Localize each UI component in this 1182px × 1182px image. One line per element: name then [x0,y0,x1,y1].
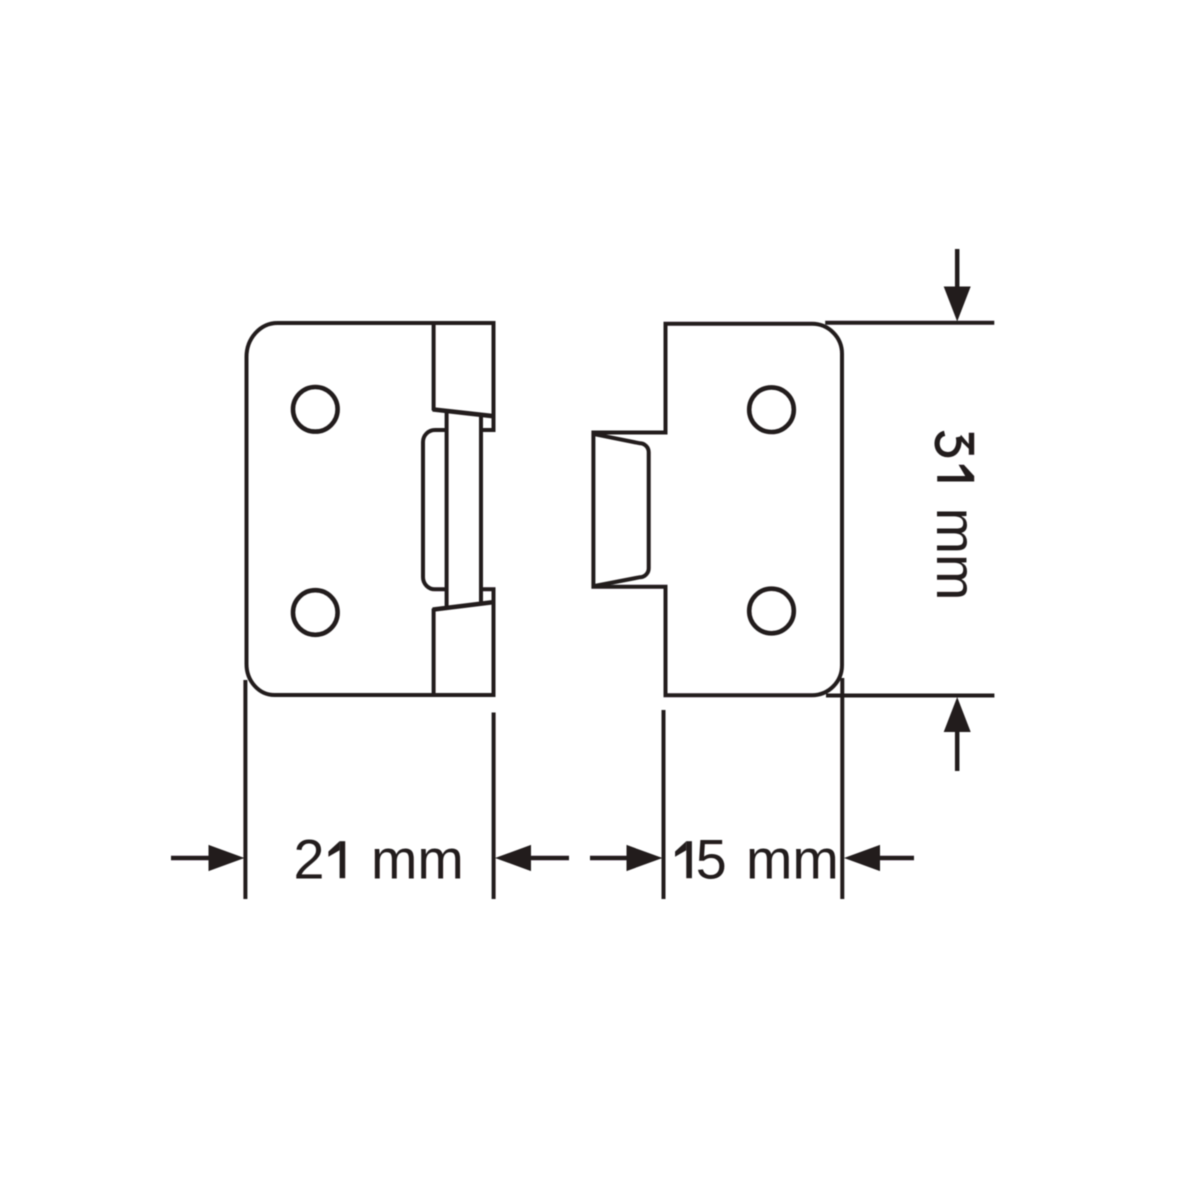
top step horizontal [479,428,496,432]
left plate top angled cut [433,409,494,416]
vertical dim: top line [825,321,994,325]
wedge tab inner face [595,434,649,586]
svg-text:2: 2 [294,829,325,891]
svg-text:mm: mm [925,508,987,601]
right plate outline [593,324,842,695]
21mm arrow left [171,845,245,871]
left plate bottom angled cut [433,602,494,610]
extension line 15mm right [840,678,844,899]
left plate outline [247,323,494,695]
glyph 3 (flat top) [937,433,974,455]
tongue left edge [445,411,449,608]
bottom step horizontal [479,587,496,591]
tongue right edge [479,415,483,604]
svg-text:mm: mm [371,829,464,891]
vertical dim: bottom line [826,694,994,698]
21mm arrow right (pointing left) [495,845,569,871]
left plate right edge top segment [492,321,496,430]
slot rounded rectangle (open right side) [423,430,447,589]
extension line 15mm left [662,710,666,899]
label 15 mm [675,829,839,891]
label 31 mm (rotated) [925,433,987,601]
svg-text:mm: mm [746,829,839,891]
left plate bottom hole [293,590,338,635]
label 21 mm [294,829,464,891]
extension line 21mm left [243,680,247,899]
right plate top hole [749,387,794,432]
svg-text:5: 5 [696,829,727,891]
15mm arrow left (pointing right) [590,845,663,871]
left plate inner vertical top [432,323,436,411]
extension line 21mm right [492,713,496,900]
glyph 1 [937,465,974,482]
left plate top hole [293,387,338,432]
left plate inner vertical bottom [432,609,436,696]
15mm arrow right (pointing left) [844,845,914,871]
vertical dim: bottom arrow [944,697,971,771]
right plate bottom hole [749,589,794,634]
left plate right edge bottom segment [492,589,496,697]
vertical dim: top arrow [944,249,971,322]
